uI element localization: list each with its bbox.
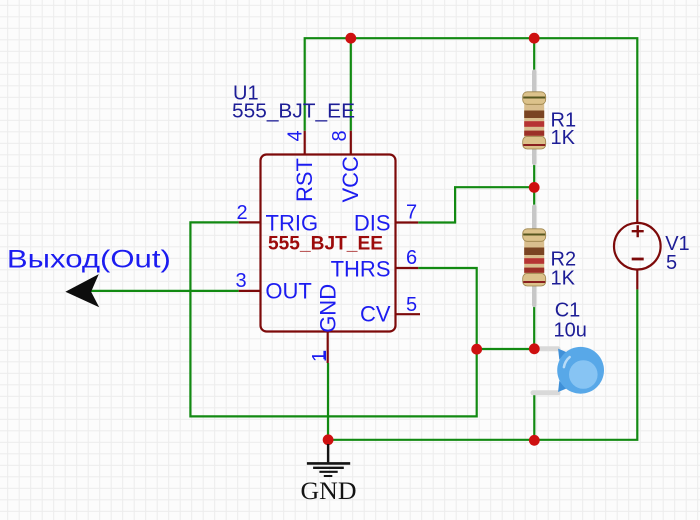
svg-text:VCC: VCC	[338, 156, 363, 203]
svg-text:3: 3	[235, 270, 246, 292]
svg-text:RST: RST	[292, 158, 317, 202]
svg-text:Выход(Out): Выход(Out)	[7, 245, 171, 273]
svg-text:5: 5	[406, 294, 417, 316]
svg-text:TRIG: TRIG	[266, 210, 319, 235]
svg-text:7: 7	[406, 202, 417, 224]
svg-text:1K: 1K	[551, 127, 576, 149]
svg-text:CV: CV	[360, 302, 391, 327]
svg-text:1: 1	[309, 351, 331, 362]
svg-text:DIS: DIS	[354, 210, 391, 235]
svg-text:GND: GND	[301, 478, 357, 505]
svg-text:2: 2	[236, 202, 247, 224]
svg-text:5: 5	[666, 252, 677, 274]
svg-text:C1: C1	[555, 300, 581, 322]
svg-text:GND: GND	[316, 284, 341, 333]
svg-text:10u: 10u	[554, 319, 587, 341]
svg-text:1K: 1K	[551, 268, 576, 290]
svg-text:8: 8	[329, 130, 351, 141]
svg-text:6: 6	[406, 247, 417, 269]
svg-text:555_BJT_EE: 555_BJT_EE	[232, 100, 355, 122]
svg-text:555_BJT_EE: 555_BJT_EE	[268, 234, 383, 255]
svg-text:OUT: OUT	[265, 279, 311, 304]
svg-text:THRS: THRS	[331, 256, 391, 281]
svg-text:4: 4	[285, 130, 307, 141]
